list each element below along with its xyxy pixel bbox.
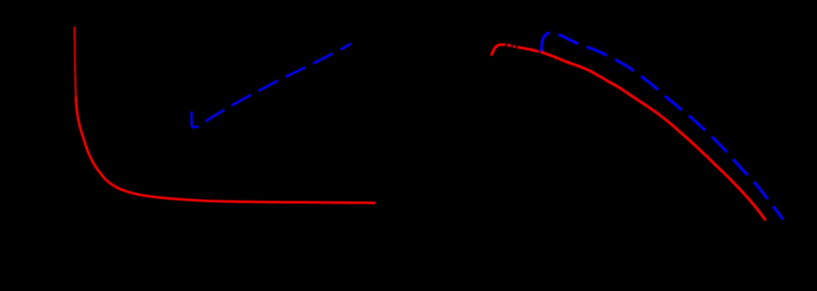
right panel blue dashed curve (test error, dashed) bbox=[541, 32, 783, 219]
left panel red solid curve (approximation error), main body bbox=[76, 97, 375, 203]
left panel red curve faded near-vertical top segment bbox=[75, 28, 76, 98]
right panel red curve apex gap overlays (small black breaks near apex) bbox=[505, 45, 541, 52]
right panel red solid curve (test error, solid) bbox=[492, 45, 765, 220]
left panel blue dashed curve (estimation error, check-mark shape) bbox=[192, 43, 351, 127]
